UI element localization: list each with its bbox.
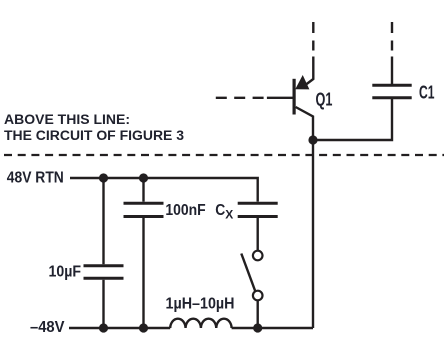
svg-text:X: X <box>225 210 233 222</box>
svg-text:C: C <box>215 202 225 219</box>
node: junction dot -48V rail / switch branch <box>253 323 262 332</box>
wire: 100nF branch lower segment <box>142 218 144 328</box>
transistor Q1 emitter arrow (PNP) <box>296 76 309 89</box>
node: junction dot -48V rail / 10uF branch <box>99 323 108 332</box>
wire: 10uF branch lower segment <box>102 280 104 328</box>
wire: Q1 emitter solid segment <box>306 57 313 85</box>
inductor L1 1uH-10uH <box>170 319 231 328</box>
switch S1 top contact circle <box>253 251 263 261</box>
svg-text:THE CIRCUIT OF FIGURE 3: THE CIRCUIT OF FIGURE 3 <box>4 128 184 143</box>
capacitor CX <box>238 203 278 216</box>
svg-text:48V RTN: 48V RTN <box>7 170 64 187</box>
capacitor 100nF <box>124 203 164 216</box>
switch S1 blade (open) <box>241 254 255 292</box>
wire: junction to C1 bottom <box>313 98 392 140</box>
svg-text:10µF: 10µF <box>49 264 82 281</box>
svg-text:Q1: Q1 <box>316 89 333 110</box>
node: junction dot top rail / 10uF branch <box>99 173 108 182</box>
svg-text:C1: C1 <box>419 82 435 103</box>
transistor Q1 base bar <box>293 79 296 115</box>
wire: Q1 emitter top dashed continuation <box>312 22 314 51</box>
capacitor C1 <box>372 85 411 97</box>
wire: CX to switch <box>257 218 259 251</box>
svg-text:1µH–10µH: 1µH–10µH <box>166 296 235 313</box>
wire: 10uF branch upper segment <box>102 178 104 264</box>
wire: 100nF branch upper segment <box>142 178 144 202</box>
wire: Q1 base solid segment <box>267 97 293 99</box>
svg-text:ABOVE THIS LINE:: ABOVE THIS LINE: <box>4 112 130 127</box>
svg-text:–48V: –48V <box>30 319 65 336</box>
wire: C1 top solid segment <box>391 57 393 85</box>
svg-text:100nF: 100nF <box>165 202 205 219</box>
capacitor 10uF <box>84 266 124 279</box>
wire: -48V rail right segment <box>232 327 313 329</box>
wire: Q1 base dashed continuation <box>216 97 267 99</box>
switch S1 bottom contact circle <box>253 291 263 301</box>
wire: switch to -48V rail <box>257 300 259 328</box>
wire: -48V rail left segment <box>69 327 170 329</box>
node: junction dot top rail / 100nF branch <box>139 173 148 182</box>
wire: Q1 collector down to -48V rail <box>296 107 313 328</box>
node: junction dot collector / C1 <box>308 135 317 144</box>
wire: C1 top dashed continuation <box>391 22 393 51</box>
dashed separator line between figure regions <box>4 154 444 156</box>
wire: 48V RTN top rail <box>70 178 258 202</box>
node: junction dot -48V rail / 100nF branch <box>139 323 148 332</box>
